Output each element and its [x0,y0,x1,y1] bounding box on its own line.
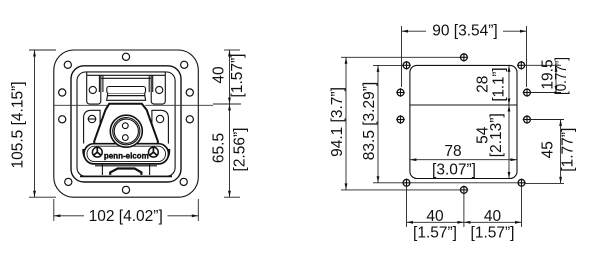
mounting hole bottom-right [517,179,526,188]
83.5 ext [373,64,403,66]
mounting hole top-right [517,61,526,70]
svg-text:[2.56”]: [2.56”] [232,128,249,172]
arrow dim 28 top [508,65,511,72]
svg-text:28: 28 [474,76,491,93]
right wing [152,110,169,143]
lever top slat [107,87,146,94]
arrow dim 19.5 bottom [555,86,558,93]
bottom tab [110,169,141,175]
lever hinge knuckle lines [99,75,152,92]
svg-text:[1.1”]: [1.1”] [490,68,507,102]
svg-text:40: 40 [484,208,502,225]
arrow dim 28 bottom [508,99,511,106]
arrow dim 94.1 top [345,57,348,64]
cutout rounded rect [410,65,517,178]
dim 102 line [54,215,84,217]
19.5: ext lines [524,64,561,66]
knob circles [110,115,142,147]
dim 90 ext lines [401,26,403,87]
arrow dim 78 right [511,158,518,161]
arrow dim 83.5 bottom [377,176,380,183]
latch top bracket band [87,72,166,75]
interior line [410,104,517,106]
base screw right [149,147,159,157]
left bracket pad [87,75,101,104]
arrow dim 40 top [228,50,231,57]
bracket inner lower line [101,77,151,79]
mounting hole bottom-center [460,186,469,195]
mounting hole top-center [460,53,469,62]
mounting hole bottom-left [402,179,411,188]
dish recess lip outer [71,66,181,182]
dish recess lip inner [77,72,175,176]
arrow dim 54 bottom [508,172,511,179]
bottom 40/40 ext lines [406,186,408,227]
svg-text:83.5 [3.29”]: 83.5 [3.29”] [361,82,378,160]
arrow dim 40 left inner [457,221,464,224]
dim 40 line [229,50,231,104]
base screw left [92,147,102,157]
45: ext line bottom [530,119,564,121]
arrow dim 102 left [54,214,61,217]
svg-text:102 [4.02”]: 102 [4.02”] [89,208,163,225]
arrow dim 45 top [559,120,562,127]
dim 105.5 extension lines [29,49,56,51]
arrow dim 94.1 bottom [345,183,348,190]
svg-text:40: 40 [211,66,228,84]
arrow dim 105.5 bottom [33,191,36,198]
hinge axis line left [54,104,107,106]
dim 90 line [402,30,427,32]
arrow dim 65.5 bottom [228,191,231,198]
arrow dim 78 left [410,158,417,161]
dim 105.5 line [34,50,36,197]
arrow dim 19.5 top [555,65,558,72]
arrow dim 105.5 top [33,50,36,57]
base flange [84,144,169,164]
arrow dim 90 left [402,30,409,33]
mounting hole left-upper [396,88,405,97]
arrow dim 54 top [508,105,511,112]
arrow dim 40 right inner [464,221,471,224]
bottom 40/40 dim line [407,221,522,223]
left wing [84,110,101,143]
svg-text:40: 40 [426,208,444,225]
lever ledge band 2 [107,96,146,101]
dim 40 right: extension lines [224,49,240,51]
94.1 dim line [345,57,347,190]
arrow dim 102 right [192,214,199,217]
svg-text:78: 78 [444,143,461,160]
28/54 dim line [508,65,510,178]
arrow dim 40 bottom [228,98,231,105]
dim 102 extension lines [53,199,55,221]
svg-text:[1.57”]: [1.57”] [413,225,457,242]
arrow dim 90 right [520,30,527,33]
dish pocket corner left [84,149,94,162]
svg-text:45: 45 [539,141,556,158]
mounting hole right-upper [523,88,532,97]
svg-text:[3.07”]: [3.07”] [432,161,476,178]
lower pocket lines [95,164,157,175]
arrow dim 40 left outer [407,221,414,224]
mounting hole top-left [402,61,411,70]
arrow dim 65.5 top [228,104,231,111]
94.1 ext top / bottom [341,56,460,58]
svg-text:105.5 [4.15”]: 105.5 [4.15”] [9,81,26,168]
svg-text:penn-elcom: penn-elcom [104,151,149,160]
dish recess floor edge [80,175,172,177]
arrow dim 83.5 top [377,65,380,72]
svg-text:[2.13”]: [2.13”] [488,113,505,157]
arrow dim 40 right outer [515,221,522,224]
svg-text:94.1 [3.7”]: 94.1 [3.7”] [329,87,346,157]
arrow dim 45 bottom [559,177,562,184]
svg-text:[1.57”]: [1.57”] [471,225,515,242]
shield housing [94,104,158,145]
78 dim line [410,159,517,161]
83.5 dim line [377,65,379,182]
outer dish flange [54,50,199,197]
dish pocket corner right [159,149,169,162]
svg-text:90 [3.54”]: 90 [3.54”] [432,22,498,39]
svg-text:[1.77”]: [1.77”] [560,128,577,172]
svg-text:65.5: 65.5 [211,133,228,163]
flange screw holes [59,53,194,193]
mounting hole right-lower [523,115,532,124]
svg-text:[1.57”]: [1.57”] [229,54,246,98]
dim 65.5 line [229,104,231,197]
lever ledge band 1 [108,94,145,96]
hinge axis line right [145,104,213,106]
mounting hole left-lower [396,115,405,124]
svg-text:[0.77”]: [0.77”] [553,57,570,95]
right bracket pad [151,75,165,104]
